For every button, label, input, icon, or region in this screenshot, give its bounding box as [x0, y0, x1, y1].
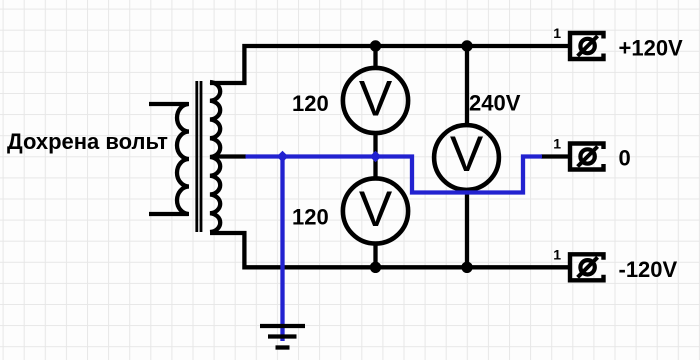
- junction dot bottom 240V column: [461, 262, 472, 273]
- svg-text:1: 1: [553, 25, 561, 41]
- svg-text:1: 1: [553, 136, 561, 152]
- svg-text:1: 1: [553, 246, 561, 262]
- wire center tap stub: [213, 154, 246, 158]
- terminal J2 0: [570, 144, 604, 170]
- transformer T1: [149, 81, 220, 232]
- terminal J3 -120V: [570, 254, 604, 280]
- svg-text:0: 0: [619, 146, 631, 171]
- junction dot top V column: [370, 40, 381, 51]
- wire bottom rail -120V net: [210, 233, 568, 267]
- svg-text:120: 120: [292, 91, 329, 116]
- wire V3 bottom lead: [465, 190, 469, 267]
- svg-text:240V: 240V: [469, 91, 521, 116]
- secondary winding coil: [210, 82, 220, 232]
- svg-text:V: V: [359, 181, 393, 237]
- wire top rail +120V net: [210, 46, 568, 83]
- wire voltmeter V1 top lead: [373, 46, 377, 67]
- voltmeter V3 (240V): [434, 125, 499, 190]
- wire blue ground stem: [280, 157, 284, 342]
- wire V3 top lead: [465, 46, 469, 125]
- wire V2 bottom lead: [373, 244, 377, 267]
- ground symbol: [260, 326, 305, 348]
- svg-text:-120V: -120V: [619, 257, 678, 282]
- primary winding coil: [177, 104, 189, 214]
- primary winding leads: [149, 104, 188, 214]
- svg-text:V: V: [359, 70, 393, 126]
- terminal J1 +120V: [570, 33, 604, 59]
- wire 0 terminal stub: [541, 154, 568, 158]
- voltmeter V1 (top 120): [343, 68, 408, 133]
- svg-text:Дохрена вольт: Дохрена вольт: [7, 129, 168, 154]
- junction dot top 240V column: [461, 40, 472, 51]
- junction blue at center tap: [277, 151, 289, 163]
- core: [197, 81, 201, 232]
- svg-text:V: V: [450, 126, 484, 182]
- voltmeter V2 (bottom 120): [343, 178, 408, 243]
- junction dot bottom V column: [370, 262, 381, 273]
- svg-text:120: 120: [292, 205, 329, 230]
- junction blue at V1/V2 column: [370, 151, 382, 163]
- wire blue neutral net: [246, 157, 543, 342]
- wire between V1 and V2: [373, 134, 377, 178]
- svg-text:+120V: +120V: [619, 36, 684, 61]
